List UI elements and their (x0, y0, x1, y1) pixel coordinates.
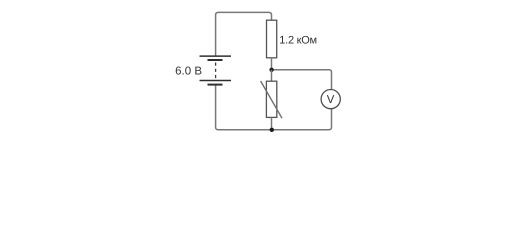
battery GB1: top cell long plate (200, 55, 232, 57)
battery GB1: dashed link between cells (215, 63, 217, 80)
thermistor RK1 box (266, 81, 276, 117)
thermistor RK1 diagonal stroke (261, 81, 282, 118)
node A (junction dot) (269, 68, 273, 72)
svg-text:V: V (327, 94, 335, 106)
battery GB1: top cell short plate (208, 59, 223, 61)
wire: top-left loop (battery top to resistor top) (216, 12, 272, 55)
svg-text:6.0 В: 6.0 В (175, 65, 202, 77)
wire: voltmeter top to junction A (272, 70, 332, 90)
battery GB1: bottom cell long plate (200, 80, 232, 82)
wire: resistor bottom to junction A (271, 58, 273, 70)
wire: junction A to thermistor top (271, 70, 273, 82)
battery GB1: bottom cell short plate (208, 84, 223, 86)
wire: thermistor bottom to junction B (271, 117, 273, 129)
svg-text:1.2 кОм: 1.2 кОм (279, 35, 317, 47)
wire: left-bottom (battery bottom to bottom-left corner, along bottom to right corner, up to voltmeter) (216, 85, 332, 130)
voltmeter PV1 (321, 90, 340, 109)
resistor R1 box (267, 20, 277, 58)
node B (junction dot) (270, 128, 274, 132)
